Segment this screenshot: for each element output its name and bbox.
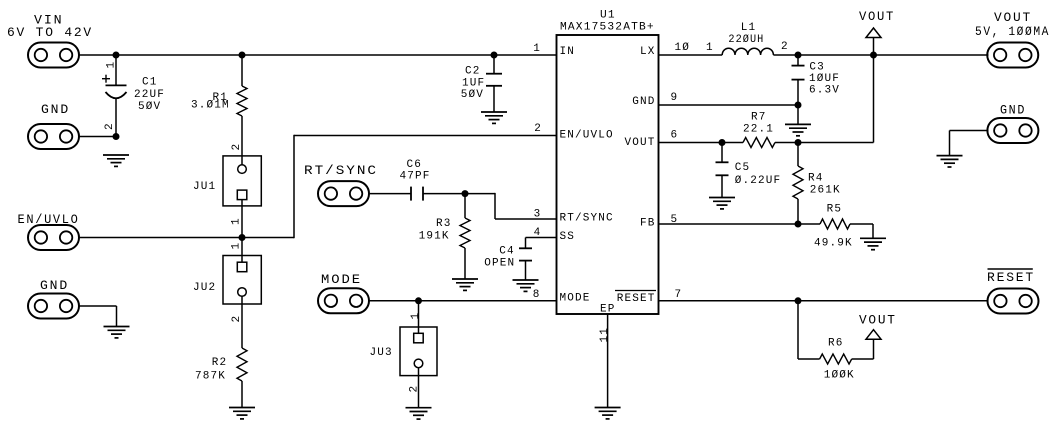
svg-text:6: 6 xyxy=(671,130,679,142)
wire EP pin11 to ground xyxy=(607,314,609,408)
svg-text:C1: C1 xyxy=(142,77,158,89)
wire GND pin9 xyxy=(659,104,799,106)
wire L1 to VOUT connector xyxy=(773,54,988,56)
svg-text:2: 2 xyxy=(231,315,243,323)
svg-text:1: 1 xyxy=(231,242,243,250)
svg-text:1UF: 1UF xyxy=(462,78,485,90)
connector GND (en) xyxy=(28,278,79,319)
wire R5 to ground xyxy=(850,224,873,238)
resistor R7 xyxy=(743,138,775,148)
ground at C1 xyxy=(103,154,129,156)
svg-text:1: 1 xyxy=(533,43,541,55)
svg-text:3.Ø1M: 3.Ø1M xyxy=(191,100,230,112)
svg-text:9: 9 xyxy=(671,92,679,104)
svg-text:6V TO 42V: 6V TO 42V xyxy=(7,25,93,40)
svg-text:RESET: RESET xyxy=(617,293,656,305)
capacitor C1 plus sign xyxy=(102,78,110,80)
resistor R3 label xyxy=(419,218,452,243)
ground at C4 xyxy=(513,279,539,281)
connector GND (input) xyxy=(28,102,79,149)
ground at GND(out) xyxy=(937,155,963,157)
connector MODE xyxy=(318,272,369,313)
svg-text:R2: R2 xyxy=(212,357,228,369)
svg-text:1: 1 xyxy=(706,42,714,54)
svg-text:JU3: JU3 xyxy=(370,347,393,359)
wire EN/UVLO net xyxy=(79,135,557,238)
wire VOUT pin6 xyxy=(659,142,744,144)
capacitor C3 value xyxy=(809,61,840,96)
resistor R1 xyxy=(237,55,247,156)
junction RT node xyxy=(462,190,469,197)
jumper JU1 xyxy=(223,156,261,206)
svg-text:RT/SYNC: RT/SYNC xyxy=(560,212,614,224)
capacitor C5 xyxy=(716,161,729,163)
svg-text:47PF: 47PF xyxy=(400,171,431,183)
wire R7 to FB node xyxy=(775,142,874,144)
svg-text:Ø.22UF: Ø.22UF xyxy=(735,175,782,187)
svg-text:C3: C3 xyxy=(809,61,825,73)
svg-text:8: 8 xyxy=(533,289,541,301)
wire R6 to VOUT flag xyxy=(852,339,874,359)
resistor R5 label xyxy=(814,204,853,250)
svg-text:OPEN: OPEN xyxy=(484,257,515,269)
resistor R5 xyxy=(820,219,850,229)
svg-text:R6: R6 xyxy=(828,338,844,350)
capacitor C2 value xyxy=(461,66,486,102)
inductor L1 label xyxy=(728,22,764,46)
wire C1 to GND node xyxy=(115,98,117,137)
svg-text:MODE: MODE xyxy=(560,293,591,305)
wire VOUT arrow riser xyxy=(873,38,875,143)
wire R6 branch xyxy=(798,301,820,359)
resistor R4 xyxy=(793,143,803,225)
svg-text:C4: C4 xyxy=(499,246,515,258)
connector RESET xyxy=(987,269,1039,314)
junction L1/C3 xyxy=(795,52,802,59)
junction MODE/JU3 xyxy=(415,297,422,304)
op-amp U1 MAX17532ATB+ box xyxy=(557,35,659,314)
svg-text:2: 2 xyxy=(104,122,116,130)
connector EN/UVLO xyxy=(18,212,80,250)
svg-text:2: 2 xyxy=(231,143,243,151)
svg-text:MODE: MODE xyxy=(321,272,362,287)
power flag VOUT (bottom) xyxy=(866,330,881,340)
svg-text:C2: C2 xyxy=(465,66,481,78)
ground at GND(en) xyxy=(104,326,130,328)
svg-text:22.1: 22.1 xyxy=(743,124,774,136)
junction EN/UVLO node xyxy=(239,234,246,241)
connector VIN xyxy=(7,13,93,68)
wire FB pin5 xyxy=(659,223,821,225)
ground at C2 xyxy=(481,111,507,113)
svg-text:787K: 787K xyxy=(195,371,226,383)
svg-text:GND: GND xyxy=(1000,103,1026,118)
svg-text:7: 7 xyxy=(675,289,683,301)
resistor R1 label xyxy=(191,92,230,112)
svg-text:L1: L1 xyxy=(741,22,757,34)
wire VIN to C1 xyxy=(115,55,117,85)
svg-text:4: 4 xyxy=(534,227,542,239)
wire VIN to C2 xyxy=(493,55,495,74)
capacitor C6 value xyxy=(400,159,431,183)
wire MODE to JU3 xyxy=(418,301,420,327)
svg-text:22UF: 22UF xyxy=(134,89,165,101)
svg-text:5V, 1ØØMA: 5V, 1ØØMA xyxy=(975,24,1050,39)
svg-text:VOUT: VOUT xyxy=(859,9,895,24)
ground at C3 xyxy=(785,123,811,125)
svg-text:1Ø: 1Ø xyxy=(675,42,691,54)
wire C5 to ground xyxy=(721,175,723,197)
wire GND(en) to ground xyxy=(78,306,117,327)
U1 refdes xyxy=(560,10,655,34)
svg-text:R5: R5 xyxy=(827,204,843,216)
junction RESET/R6 xyxy=(795,297,802,304)
resistor R6 xyxy=(820,354,852,364)
resistor R2 label xyxy=(195,357,227,383)
svg-text:R3: R3 xyxy=(436,218,452,230)
connector RT/SYNC xyxy=(304,163,378,206)
svg-text:1ØØK: 1ØØK xyxy=(824,370,855,382)
wire pin4 to C4 xyxy=(526,238,557,249)
junction VIN/C2 xyxy=(491,52,498,59)
wire LX node to C3 xyxy=(797,55,799,66)
capacitor C1 xyxy=(106,85,127,98)
wire MODE net xyxy=(369,300,557,302)
wire LX to L1 xyxy=(659,54,723,56)
svg-text:2: 2 xyxy=(781,41,789,53)
capacitor C4 xyxy=(519,247,532,249)
resistor R3 xyxy=(460,194,470,279)
connector GND (output) xyxy=(987,103,1038,144)
wire C4 to ground xyxy=(525,261,527,280)
svg-text:3: 3 xyxy=(534,209,542,221)
wire C3 to GND pin node xyxy=(797,80,799,105)
svg-text:FB: FB xyxy=(640,218,656,230)
power flag VOUT (top) xyxy=(866,28,881,38)
wire GND to C1 node xyxy=(79,136,116,138)
connector VOUT xyxy=(975,10,1050,68)
svg-text:EP: EP xyxy=(600,304,616,316)
jumper JU2 xyxy=(223,256,261,305)
ground at JU3 xyxy=(406,407,432,409)
svg-text:2: 2 xyxy=(534,123,542,135)
jumper JU3 xyxy=(400,327,437,376)
svg-text:VOUT: VOUT xyxy=(994,10,1032,25)
capacitor C1 value xyxy=(134,77,165,114)
capacitor C3 xyxy=(792,65,805,67)
wire C5 top xyxy=(721,143,723,163)
svg-text:C5: C5 xyxy=(735,162,751,174)
svg-text:1: 1 xyxy=(231,217,243,225)
resistor R2 xyxy=(237,304,247,408)
ground at R2 xyxy=(229,407,255,409)
svg-text:SS: SS xyxy=(560,231,576,243)
wire VIN rail xyxy=(79,54,557,56)
svg-text:5ØV: 5ØV xyxy=(138,101,161,113)
capacitor C4 value xyxy=(484,246,515,270)
U1 pin name RESET xyxy=(615,291,656,306)
svg-text:JU1: JU1 xyxy=(193,181,216,193)
svg-text:RT/SYNC: RT/SYNC xyxy=(304,163,378,178)
junction FB/R5 xyxy=(795,221,802,228)
ground at EP xyxy=(595,407,621,409)
junction VIN/C1 xyxy=(113,52,120,59)
wire RESET pin7 xyxy=(659,300,989,302)
junction VOUT rail xyxy=(870,52,877,59)
svg-text:191K: 191K xyxy=(419,231,450,243)
svg-text:261K: 261K xyxy=(810,185,841,197)
capacitor C6 xyxy=(411,187,423,201)
wire RT node to pin3 xyxy=(465,193,557,219)
svg-text:JU2: JU2 xyxy=(193,282,216,294)
capacitor C5 value xyxy=(735,162,782,187)
resistor R6 label xyxy=(824,338,855,382)
inductor L1 xyxy=(722,48,773,55)
wire pin9 node to ground xyxy=(797,105,799,124)
svg-text:1: 1 xyxy=(410,312,422,320)
svg-text:22ØUH: 22ØUH xyxy=(728,34,764,46)
svg-text:GND: GND xyxy=(632,96,655,108)
wire C6 to R3 node xyxy=(423,193,465,195)
svg-text:49.9K: 49.9K xyxy=(814,237,853,249)
resistor R7 label xyxy=(743,111,774,135)
svg-text:EN/UVLO: EN/UVLO xyxy=(560,129,614,141)
resistor R4 label xyxy=(808,173,841,197)
svg-text:6.3V: 6.3V xyxy=(809,84,840,96)
svg-text:1ØUF: 1ØUF xyxy=(809,73,840,85)
wire GND(out) to ground xyxy=(950,131,989,156)
svg-text:GND: GND xyxy=(40,278,69,293)
svg-text:R4: R4 xyxy=(808,173,824,185)
svg-text:MAX17532ATB+: MAX17532ATB+ xyxy=(560,22,655,34)
junction C1/GND xyxy=(113,133,120,140)
svg-text:IN: IN xyxy=(560,46,576,58)
svg-text:R7: R7 xyxy=(751,111,767,123)
capacitor C2 xyxy=(486,73,502,75)
svg-text:LX: LX xyxy=(640,46,656,58)
wire RT/SYNC to C6 xyxy=(368,193,411,195)
junction VIN/R1 xyxy=(239,52,246,59)
svg-text:RESET: RESET xyxy=(987,270,1035,285)
wire JU1 to EN/UVLO node xyxy=(241,206,243,256)
ground at R5 xyxy=(860,237,886,239)
ground at C5 xyxy=(709,197,735,199)
junction GND pin9/C3 xyxy=(795,102,802,109)
wire JU3 to ground xyxy=(418,376,420,408)
svg-text:5ØV: 5ØV xyxy=(461,89,484,101)
svg-text:EN/UVLO: EN/UVLO xyxy=(18,212,80,227)
junction VOUT/C5 xyxy=(719,139,726,146)
svg-text:VOUT: VOUT xyxy=(624,137,655,149)
wire C2 to ground xyxy=(493,86,495,112)
svg-text:GND: GND xyxy=(41,102,70,117)
ground at R3 xyxy=(452,278,478,280)
junction FB divider top xyxy=(795,139,802,146)
svg-text:C6: C6 xyxy=(407,159,423,171)
svg-text:U1: U1 xyxy=(600,10,616,22)
svg-text:VOUT: VOUT xyxy=(859,313,897,328)
svg-text:11: 11 xyxy=(599,327,611,343)
